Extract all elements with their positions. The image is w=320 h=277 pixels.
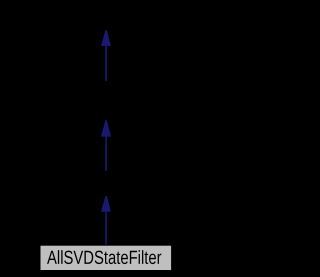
svg-text:AllSVDStateFilter: AllSVDStateFilter — [47, 248, 162, 269]
